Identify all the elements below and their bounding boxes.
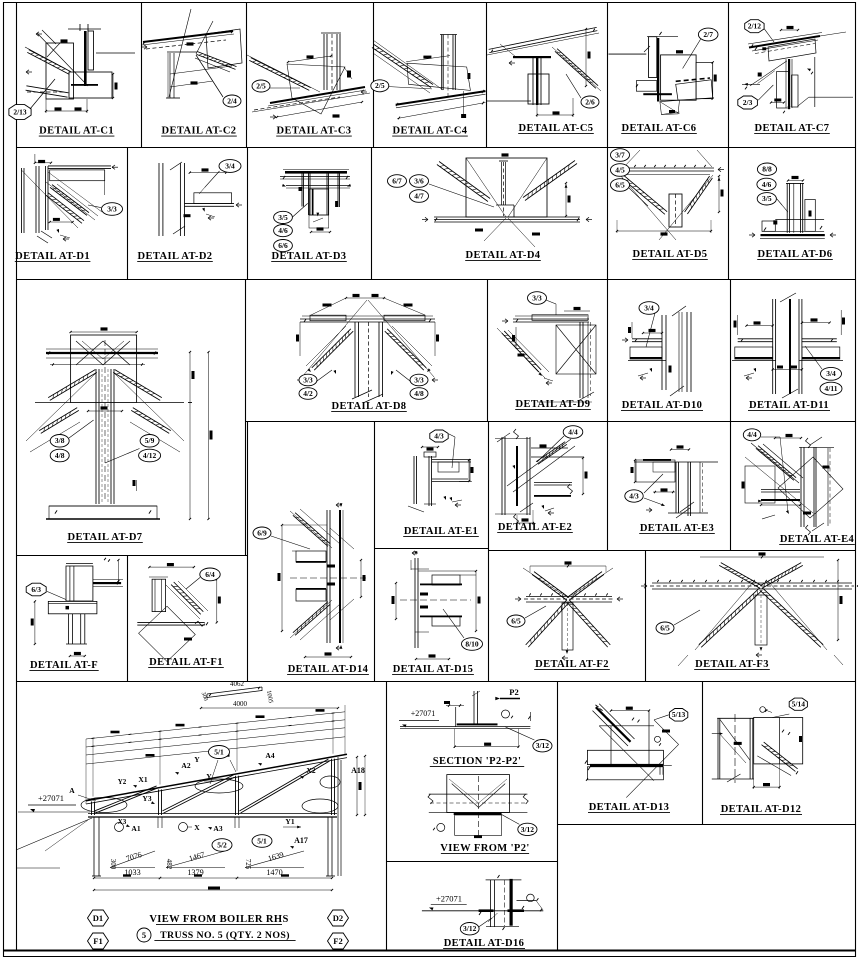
svg-text:DETAIL AT-D1: DETAIL AT-D1 bbox=[15, 251, 90, 262]
svg-text:2/7: 2/7 bbox=[703, 30, 713, 39]
svg-text:725: 725 bbox=[244, 859, 252, 870]
svg-text:4/6: 4/6 bbox=[278, 226, 288, 235]
svg-text:DETAIL AT-F1: DETAIL AT-F1 bbox=[149, 657, 223, 668]
svg-text:8/10: 8/10 bbox=[465, 639, 479, 648]
svg-text:3/12: 3/12 bbox=[463, 924, 477, 933]
svg-text:2/5: 2/5 bbox=[375, 81, 385, 90]
svg-text:4/4: 4/4 bbox=[747, 430, 757, 439]
svg-text:F2: F2 bbox=[333, 936, 342, 946]
svg-text:3/3: 3/3 bbox=[532, 293, 542, 302]
svg-text:6/9: 6/9 bbox=[257, 528, 267, 537]
svg-text:3/4: 3/4 bbox=[225, 161, 235, 170]
svg-text:Y2: Y2 bbox=[118, 778, 127, 786]
svg-text:Y3: Y3 bbox=[142, 794, 151, 803]
svg-text:A18: A18 bbox=[351, 766, 365, 775]
svg-text:4/8: 4/8 bbox=[414, 389, 424, 398]
svg-text:8/8: 8/8 bbox=[762, 165, 772, 174]
svg-text:DETAIL AT-C2: DETAIL AT-C2 bbox=[162, 126, 237, 137]
svg-text:3/8: 3/8 bbox=[55, 436, 65, 445]
svg-text:2/3: 2/3 bbox=[743, 98, 753, 107]
svg-text:SECTION 'P2-P2': SECTION 'P2-P2' bbox=[433, 756, 522, 767]
svg-text:6/5: 6/5 bbox=[615, 180, 625, 189]
svg-text:DETAIL AT-C4: DETAIL AT-C4 bbox=[393, 126, 468, 137]
svg-text:VIEW FROM 'P2': VIEW FROM 'P2' bbox=[440, 843, 529, 854]
svg-text:DETAIL AT-D12: DETAIL AT-D12 bbox=[721, 804, 802, 815]
svg-text:A: A bbox=[69, 786, 75, 795]
svg-text:3/4: 3/4 bbox=[644, 303, 654, 312]
svg-text:5/1: 5/1 bbox=[257, 836, 267, 845]
svg-text:4/4: 4/4 bbox=[568, 427, 578, 436]
svg-text:2/4: 2/4 bbox=[227, 96, 237, 105]
svg-text:DETAIL AT-C3: DETAIL AT-C3 bbox=[277, 126, 352, 137]
svg-text:Y1: Y1 bbox=[285, 817, 294, 826]
svg-text:DETAIL AT-F3: DETAIL AT-F3 bbox=[695, 659, 769, 670]
svg-text:3/12: 3/12 bbox=[536, 741, 550, 750]
svg-text:TRUSS NO. 5 (QTY. 2 NOS): TRUSS NO. 5 (QTY. 2 NOS) bbox=[160, 930, 290, 941]
svg-text:4/11: 4/11 bbox=[825, 384, 838, 393]
svg-text:3/4: 3/4 bbox=[826, 369, 836, 378]
svg-text:3/5: 3/5 bbox=[762, 194, 772, 203]
svg-text:3/3: 3/3 bbox=[303, 375, 313, 384]
svg-text:6/5: 6/5 bbox=[511, 616, 521, 625]
svg-text:3/12: 3/12 bbox=[521, 825, 535, 834]
svg-text:4/3: 4/3 bbox=[629, 491, 639, 500]
svg-text:DETAIL AT-D13: DETAIL AT-D13 bbox=[589, 802, 670, 813]
svg-text:A3: A3 bbox=[213, 824, 222, 833]
svg-text:5/14: 5/14 bbox=[792, 700, 806, 709]
svg-text:DETAIL AT-E2: DETAIL AT-E2 bbox=[498, 522, 572, 533]
svg-text:X: X bbox=[194, 823, 200, 832]
svg-text:DETAIL AT-D4: DETAIL AT-D4 bbox=[466, 250, 541, 261]
svg-text:D1: D1 bbox=[93, 913, 103, 923]
svg-text:D2: D2 bbox=[333, 913, 343, 923]
svg-text:A2: A2 bbox=[181, 761, 190, 770]
svg-text:4062: 4062 bbox=[230, 680, 245, 688]
svg-text:300: 300 bbox=[109, 859, 117, 870]
svg-text:DETAIL AT-D11: DETAIL AT-D11 bbox=[749, 400, 829, 411]
svg-text:482: 482 bbox=[165, 859, 173, 870]
svg-text:F1: F1 bbox=[93, 936, 102, 946]
svg-text:6/6: 6/6 bbox=[278, 241, 288, 250]
svg-text:4/6: 4/6 bbox=[762, 180, 772, 189]
svg-text:DETAIL AT-C7: DETAIL AT-C7 bbox=[755, 123, 830, 134]
svg-text:5/2: 5/2 bbox=[217, 840, 227, 849]
svg-text:DETAIL AT-C5: DETAIL AT-C5 bbox=[519, 123, 594, 134]
svg-text:3/6: 3/6 bbox=[414, 176, 424, 185]
svg-text:1470: 1470 bbox=[266, 868, 282, 877]
svg-text:6/4: 6/4 bbox=[205, 570, 215, 579]
svg-text:6/7: 6/7 bbox=[392, 176, 402, 185]
svg-text:DETAIL AT-D7: DETAIL AT-D7 bbox=[68, 532, 143, 543]
svg-text:3/7: 3/7 bbox=[615, 150, 625, 159]
svg-text:DETAIL AT-D3: DETAIL AT-D3 bbox=[272, 251, 347, 262]
svg-text:5: 5 bbox=[142, 930, 146, 940]
svg-text:DETAIL AT-D14: DETAIL AT-D14 bbox=[288, 664, 369, 675]
svg-text:X3: X3 bbox=[118, 818, 127, 826]
svg-text:X1: X1 bbox=[138, 775, 147, 784]
svg-text:DETAIL AT-D6: DETAIL AT-D6 bbox=[758, 249, 833, 260]
svg-text:DETAIL AT-F2: DETAIL AT-F2 bbox=[535, 659, 609, 670]
svg-text:4000: 4000 bbox=[233, 700, 248, 708]
svg-text:6/5: 6/5 bbox=[660, 623, 670, 632]
svg-text:2/6: 2/6 bbox=[585, 97, 595, 106]
svg-text:DETAIL AT-D2: DETAIL AT-D2 bbox=[138, 251, 213, 262]
svg-text:3/5: 3/5 bbox=[278, 213, 288, 222]
svg-text:X2: X2 bbox=[306, 766, 315, 775]
svg-text:+27071: +27071 bbox=[436, 894, 462, 904]
svg-text:+27071: +27071 bbox=[411, 709, 436, 718]
svg-text:4/3: 4/3 bbox=[434, 431, 444, 440]
svg-text:DETAIL AT-D15: DETAIL AT-D15 bbox=[393, 664, 474, 675]
svg-text:DETAIL AT-E3: DETAIL AT-E3 bbox=[640, 523, 714, 534]
svg-text:A4: A4 bbox=[265, 751, 274, 760]
svg-text:DETAIL AT-D5: DETAIL AT-D5 bbox=[633, 249, 708, 260]
svg-text:P2: P2 bbox=[509, 687, 518, 697]
svg-text:4/12: 4/12 bbox=[143, 451, 157, 460]
svg-text:DETAIL AT-D8: DETAIL AT-D8 bbox=[332, 401, 407, 412]
svg-text:DETAIL AT-E1: DETAIL AT-E1 bbox=[404, 526, 478, 537]
svg-text:5/13: 5/13 bbox=[672, 710, 686, 719]
svg-text:+27071: +27071 bbox=[38, 793, 64, 803]
svg-text:4/8: 4/8 bbox=[55, 451, 65, 460]
svg-text:3/3: 3/3 bbox=[107, 204, 117, 213]
svg-text:6/3: 6/3 bbox=[31, 585, 41, 594]
svg-text:DETAIL AT-C1: DETAIL AT-C1 bbox=[39, 126, 114, 137]
svg-text:2/5: 2/5 bbox=[256, 81, 266, 90]
svg-text:DETAIL AT-C6: DETAIL AT-C6 bbox=[622, 123, 697, 134]
svg-text:A17: A17 bbox=[294, 836, 308, 845]
svg-text:4/7: 4/7 bbox=[414, 191, 424, 200]
svg-text:Y: Y bbox=[194, 755, 200, 764]
svg-text:4/5: 4/5 bbox=[615, 165, 625, 174]
svg-text:3/3: 3/3 bbox=[414, 375, 424, 384]
svg-text:2/12: 2/12 bbox=[748, 22, 762, 31]
svg-text:VIEW FROM BOILER RHS: VIEW FROM BOILER RHS bbox=[149, 914, 288, 925]
svg-text:DETAIL AT-D10: DETAIL AT-D10 bbox=[622, 400, 703, 411]
svg-text:4/2: 4/2 bbox=[303, 389, 313, 398]
svg-text:A1: A1 bbox=[131, 824, 140, 833]
svg-text:DETAIL AT-F: DETAIL AT-F bbox=[30, 660, 98, 671]
svg-text:DETAIL AT-D16: DETAIL AT-D16 bbox=[444, 938, 525, 949]
svg-text:5/1: 5/1 bbox=[214, 747, 224, 756]
svg-text:5/9: 5/9 bbox=[145, 436, 155, 445]
svg-text:DETAIL AT-E4: DETAIL AT-E4 bbox=[780, 534, 855, 545]
svg-text:2/13: 2/13 bbox=[13, 107, 27, 116]
